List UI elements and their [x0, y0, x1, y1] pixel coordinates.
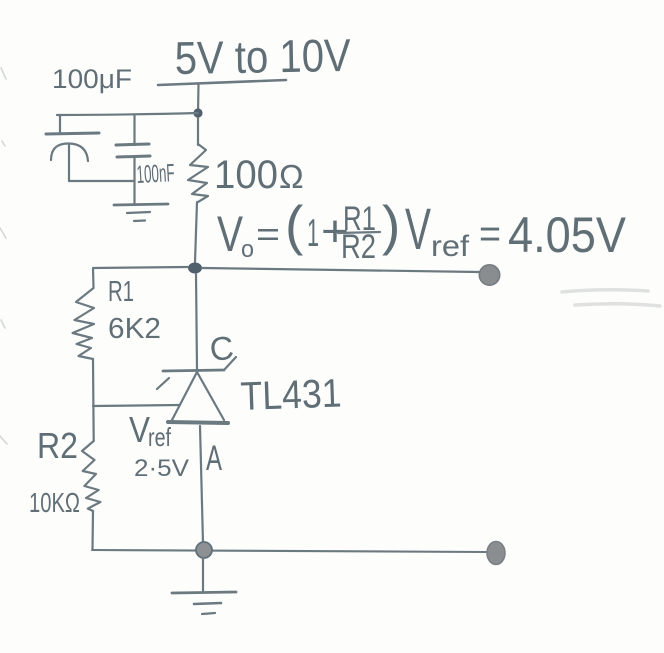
svg-text:6K2: 6K2	[108, 313, 161, 345]
svg-text:10KΩ: 10KΩ	[29, 487, 80, 518]
ground under C2	[114, 204, 168, 221]
label: 10K ohm	[29, 487, 80, 518]
label: A anode	[206, 439, 222, 478]
svg-text:(: (	[285, 194, 303, 256]
node: Vo junction	[188, 263, 202, 274]
svg-text:1: 1	[307, 212, 319, 255]
wire: rail to V+ node	[197, 84, 200, 113]
svg-text:R1: R1	[108, 276, 134, 308]
wire: R2 bottom to ground rail	[91, 511, 94, 549]
svg-text:=: =	[256, 216, 280, 254]
svg-text:100: 100	[214, 153, 278, 197]
wire: Vo node to output terminal	[202, 268, 479, 272]
svg-text:TL431: TL431	[240, 371, 342, 418]
wire: Vo node to TL431 cathode	[196, 274, 197, 369]
capacitor C1 100uF electrolytic	[46, 115, 99, 181]
label: supply voltage 5V to 10V	[174, 29, 351, 84]
node: ground junction	[196, 542, 212, 558]
svg-text:2·5V: 2·5V	[134, 455, 189, 482]
ground main	[172, 558, 236, 614]
svg-text:ref: ref	[148, 422, 172, 452]
wire: C1 bottom to C2 ground branch	[69, 180, 134, 182]
svg-text:ref: ref	[431, 230, 470, 263]
label: C cathode	[208, 329, 236, 368]
label: 6K2	[108, 313, 161, 345]
svg-text:100nF: 100nF	[136, 159, 175, 189]
svg-text:5V to 10V: 5V to 10V	[174, 29, 351, 84]
TL431 U1	[157, 357, 236, 423]
node: V+ junction	[193, 108, 202, 117]
wire: TL431 anode to ground rail	[200, 426, 203, 543]
svg-text:A: A	[206, 439, 222, 478]
wire: bottom ground rail	[92, 550, 486, 552]
label: 100uF	[52, 64, 132, 94]
svg-text:V: V	[405, 197, 431, 262]
terminal: Vo output	[479, 265, 499, 285]
label: R1	[108, 276, 134, 308]
label: 2.5V	[134, 455, 189, 482]
label: R2	[37, 425, 78, 466]
svg-text:=: =	[479, 212, 501, 256]
svg-text:100μF: 100μF	[52, 64, 132, 94]
wire: ref junction to TL431 reference	[93, 405, 180, 406]
label: 100 ohm	[214, 153, 304, 197]
wire: R1 bottom to R2 top	[92, 359, 95, 441]
svg-text:R2: R2	[37, 425, 78, 466]
svg-text:R2: R2	[341, 228, 376, 266]
wire: top horizontal to capacitors	[57, 113, 198, 115]
svg-text:V: V	[129, 409, 150, 450]
wire: Vo node left to R1	[93, 267, 188, 288]
label: TL431	[240, 371, 342, 418]
svg-text:4.05V: 4.05V	[508, 207, 627, 263]
svg-text:V: V	[217, 206, 243, 262]
label: Vref	[129, 409, 172, 452]
svg-text:Ω: Ω	[279, 158, 304, 195]
svg-text:): )	[382, 194, 400, 256]
power rail bar	[158, 80, 286, 85]
resistor 100 ohm	[188, 118, 208, 262]
label: 100nF	[136, 159, 175, 189]
svg-text:o: o	[241, 236, 254, 263]
terminal: return	[487, 542, 505, 565]
capacitor C2 100nF	[116, 115, 150, 204]
resistor R1	[73, 288, 95, 359]
svg-text:C: C	[208, 329, 236, 368]
formula: Vo = (1 + R1/R2) Vref = 4.05V	[217, 194, 627, 266]
resistor R2	[82, 441, 100, 511]
